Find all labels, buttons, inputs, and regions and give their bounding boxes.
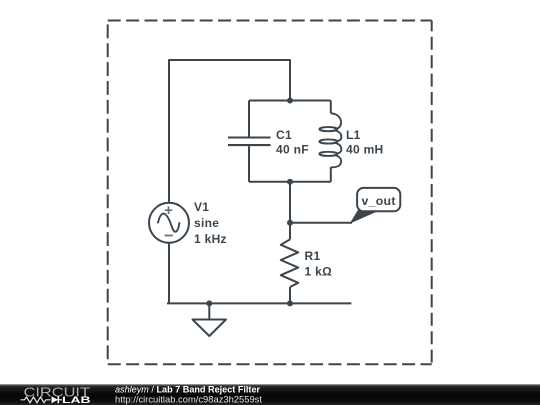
node dot resistor bottom	[287, 300, 293, 306]
resistor R1	[281, 239, 298, 303]
svg-text:1 kHz: 1 kHz	[194, 232, 227, 246]
svg-text:L1: L1	[346, 128, 361, 142]
label R1 1 kOhm	[305, 249, 333, 278]
svg-text:V1: V1	[194, 200, 209, 214]
node dot v_out tap	[287, 220, 293, 226]
capacitor C1	[228, 101, 271, 182]
footer bar	[0, 384, 540, 405]
inductor L1	[319, 101, 341, 182]
node dot LC top	[287, 98, 293, 104]
node dot ground tap	[206, 300, 212, 306]
logo CIRCUIT text	[24, 384, 91, 399]
label C1 40 nF	[276, 128, 309, 157]
svg-text:40 nF: 40 nF	[276, 143, 309, 157]
wire LC bottom to resistor	[289, 182, 291, 240]
LC box top wire	[249, 100, 331, 102]
svg-text:http://circuitlab.com/c98az3h2: http://circuitlab.com/c98az3h2559st	[115, 393, 262, 404]
wire v_out tap	[290, 222, 352, 224]
svg-text:1 kΩ: 1 kΩ	[305, 264, 333, 278]
footer url line	[115, 393, 262, 404]
wire top-left: V1 top to LC box top	[169, 60, 290, 203]
footer title line	[115, 384, 261, 394]
LC box bottom wire	[249, 181, 331, 183]
svg-text:v_out: v_out	[361, 194, 395, 208]
svg-text:R1: R1	[305, 249, 321, 263]
logo LAB text	[62, 395, 91, 405]
wire bottom rail	[167, 302, 351, 304]
ground symbol	[193, 303, 227, 336]
label L1 40 mH	[346, 128, 384, 157]
logo diode	[52, 396, 63, 403]
V1 minus sign	[165, 235, 173, 237]
V1 sine wave	[158, 214, 180, 232]
svg-text:sine: sine	[194, 216, 219, 230]
flag v_out	[351, 188, 401, 223]
V1 plus sign	[165, 206, 173, 214]
dashed selection border	[108, 21, 432, 365]
svg-text:LAB: LAB	[62, 395, 91, 405]
voltage source V1	[149, 203, 189, 243]
logo resistor zigzag	[21, 397, 51, 403]
wire V1 bottom to ground rail	[168, 243, 170, 304]
label V1 sine 1 kHz	[194, 200, 227, 246]
svg-text:C1: C1	[276, 128, 292, 142]
node dot LC bottom	[287, 179, 293, 185]
svg-text:40 mH: 40 mH	[346, 143, 384, 157]
